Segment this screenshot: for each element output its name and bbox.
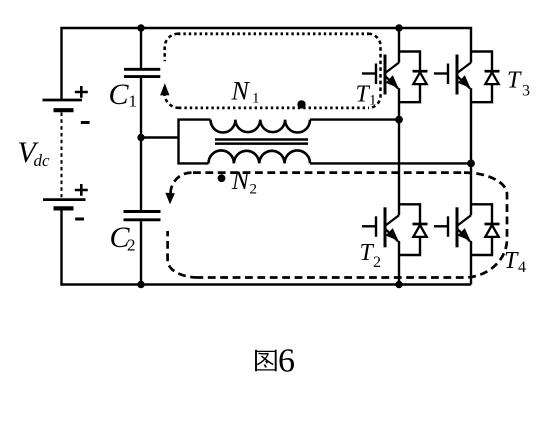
- svg-text:1: 1: [252, 91, 260, 107]
- svg-text:2: 2: [373, 254, 381, 271]
- svg-text:N: N: [231, 166, 251, 195]
- svg-text:T: T: [507, 67, 522, 93]
- svg-text:1: 1: [129, 92, 138, 111]
- svg-text:N: N: [231, 77, 251, 106]
- svg-text:2: 2: [250, 182, 258, 198]
- svg-text:dc: dc: [34, 151, 51, 170]
- svg-text:2: 2: [127, 236, 136, 255]
- svg-text:1: 1: [369, 93, 377, 109]
- svg-text:T: T: [504, 248, 519, 274]
- svg-text:C: C: [109, 78, 130, 111]
- svg-text:3: 3: [522, 83, 530, 100]
- svg-text:6: 6: [278, 342, 295, 379]
- svg-text:4: 4: [518, 259, 526, 276]
